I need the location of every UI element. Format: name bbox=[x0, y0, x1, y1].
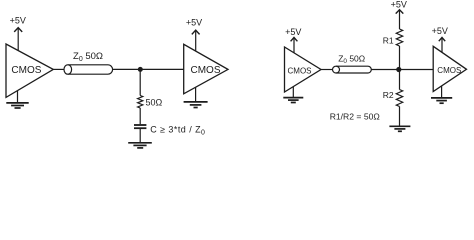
svg-text:CMOS: CMOS bbox=[437, 66, 461, 75]
power arrow U1 bbox=[14, 28, 22, 51]
power arrow U3 bbox=[291, 37, 298, 53]
svg-text:+5V: +5V bbox=[285, 27, 301, 37]
wire transmission line to node A bbox=[113, 68, 141, 70]
wire node B down to R2 bbox=[399, 70, 401, 90]
ground U3 bbox=[283, 87, 303, 103]
svg-text:+5V: +5V bbox=[10, 16, 26, 26]
CMOS driver U3 bbox=[285, 47, 322, 92]
svg-text:R1: R1 bbox=[383, 36, 394, 46]
ground U1 bbox=[6, 91, 28, 108]
svg-text:CMOS: CMOS bbox=[191, 65, 221, 76]
CMOS receiver U4 bbox=[433, 46, 466, 91]
svg-text:+5V: +5V bbox=[186, 17, 202, 27]
transmission line Z0 50ohm (right) bbox=[333, 66, 372, 73]
wire R2 to ground bbox=[399, 107, 401, 126]
node B junction bbox=[396, 67, 401, 72]
node A junction bbox=[138, 67, 143, 72]
svg-text:+5V: +5V bbox=[391, 0, 407, 10]
svg-text:Z0 50Ω: Z0 50Ω bbox=[338, 53, 365, 65]
svg-text:CMOS: CMOS bbox=[288, 66, 312, 75]
svg-text:CMOS: CMOS bbox=[11, 65, 41, 76]
resistor 50ohm bbox=[138, 96, 143, 109]
ground terminator bbox=[128, 143, 152, 148]
power arrow U2 bbox=[192, 30, 200, 51]
capacitor C bbox=[134, 125, 146, 128]
power arrow U4 bbox=[439, 37, 445, 52]
wire node A down to terminator bbox=[139, 69, 141, 95]
wire node A to U2 input bbox=[140, 68, 183, 70]
ground R2 bbox=[389, 126, 410, 131]
wire node B to U4 input bbox=[399, 69, 433, 71]
svg-text:50Ω: 50Ω bbox=[146, 97, 163, 107]
wire U3 output to transmission line bbox=[321, 69, 333, 71]
wire capacitor to ground bbox=[139, 128, 141, 142]
svg-text:Z0 50Ω: Z0 50Ω bbox=[73, 51, 103, 63]
power arrow R1 rail bbox=[396, 10, 404, 29]
ground U4 bbox=[431, 86, 452, 103]
svg-text:C ≥ 3*td / Z0: C ≥ 3*td / Z0 bbox=[150, 124, 205, 136]
resistor R2 bbox=[396, 90, 402, 107]
wire U1 output to transmission line bbox=[53, 68, 64, 70]
ground U2 bbox=[184, 87, 208, 107]
svg-text:R2: R2 bbox=[383, 90, 394, 100]
resistor R1 bbox=[396, 29, 402, 46]
wire R1 to node B bbox=[399, 46, 401, 70]
transmission line Z0 50ohm (left) bbox=[64, 65, 113, 74]
CMOS driver U1 bbox=[6, 44, 53, 97]
wire transmission line to node B bbox=[371, 69, 399, 71]
wire resistor to capacitor bbox=[139, 108, 141, 124]
CMOS receiver U2 bbox=[184, 44, 228, 94]
svg-text:+5V: +5V bbox=[432, 26, 448, 36]
svg-text:R1/R2 = 50Ω: R1/R2 = 50Ω bbox=[330, 112, 381, 122]
